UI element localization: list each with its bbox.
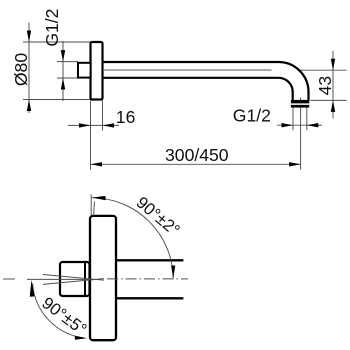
dimension Ø80 extension line top (23, 41, 90, 43)
dimension 300/450 dimension line (91, 163, 301, 165)
dimension 300/450 arrow right (289, 162, 301, 166)
svg-text:300/450: 300/450 (165, 145, 229, 165)
svg-text:16: 16 (116, 107, 136, 127)
dimension G1/2 (wall thread) arrow top (61, 50, 65, 62)
dimension 43 dimension line (332, 51, 334, 119)
dimension Ø80 arrow bottom (27, 100, 31, 112)
angle arc 90+-2 arrow bottom (171, 266, 175, 279)
dimension G1/2 (outlet thread) arrow right (307, 123, 319, 127)
angle arc 90+-2 (92, 198, 173, 279)
arm tube bottom edge (bottom view) (116, 297, 183, 299)
dimension Ø80 extension line bottom (23, 99, 90, 101)
dimension G1/2 (outlet thread) extension lines (293, 108, 307, 130)
angle arc 90+-5 arrow top (30, 280, 35, 297)
svg-text:Ø80: Ø80 (11, 53, 31, 86)
dimension Ø80 arrow top (27, 31, 31, 43)
arm tube lower contour with inner bend (103, 78, 293, 101)
dimension G1/2 (wall thread) arrow bottom (61, 78, 65, 90)
dimension 16 extension lines (91, 101, 103, 170)
wall connector nut G1/2 (top view) (78, 63, 91, 78)
tilted -5 deg reference ray (43, 279, 104, 285)
centerline left stub (3, 278, 15, 280)
svg-text:G1/2: G1/2 (233, 105, 271, 125)
dimension G1/2 (wall thread) dimension line (62, 41, 64, 101)
nut washer line (84, 263, 86, 295)
dimension G1/2 (outlet thread) dimension line (277, 124, 322, 126)
dimension 43 extension lines (300, 70, 347, 100)
tilted +5 deg reference ray (43, 275, 104, 281)
svg-text:43: 43 (315, 76, 335, 96)
dimension 43 arrow bottom (331, 100, 335, 112)
dimension 300/450 extension line right (300, 98, 302, 170)
arm tube top edge (bottom view) (116, 259, 183, 261)
dimension 300/450 arrow left (91, 162, 103, 166)
wall flange plate (top view) (91, 42, 103, 100)
dimension G1/2 (outlet thread) arrow left (282, 123, 294, 127)
dimension 16 arrow left (79, 123, 91, 127)
svg-text:G1/2: G1/2 (42, 9, 62, 47)
angle arc 90+-5 (33, 283, 85, 338)
dimension 16 dimension line (68, 124, 119, 126)
wall flange plate (bottom view) (90, 216, 116, 340)
arm tube centerline (top view) (104, 69, 272, 71)
vertical reference line above plate (90, 194, 92, 215)
tilted +2 deg reference line (93, 202, 96, 216)
horizontal reference ray (left of plate) (27, 278, 91, 280)
arm centerline (bottom view, dash-dot) (107, 278, 188, 280)
angle arc 90+-5 arrow bottom (75, 336, 87, 340)
dimension G1/2 (wall thread) extension lines (57, 62, 78, 78)
connector nut (bottom view) (60, 262, 90, 296)
dimension 43 arrow top (331, 59, 335, 70)
outlet thread collar (291, 100, 309, 108)
angle arc 90+-2 arrow left (92, 196, 106, 200)
dimension Ø80 dimension line (28, 23, 30, 114)
arm tube upper contour with outer bend (103, 62, 309, 101)
dimension 16 arrow right (103, 123, 115, 127)
